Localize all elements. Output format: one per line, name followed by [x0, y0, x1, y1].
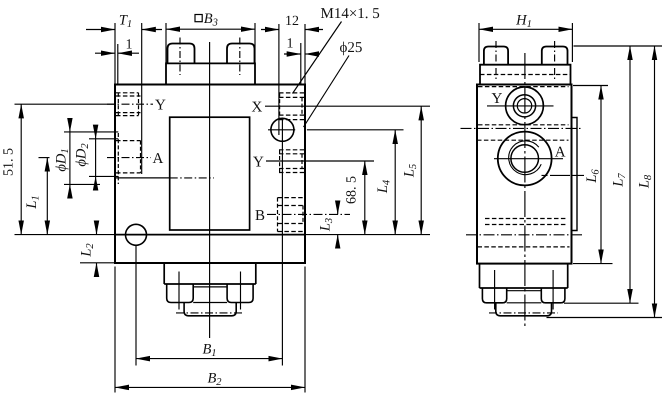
dim 68.5 line — [364, 161, 366, 235]
ext line level3 bottom to L8 — [547, 317, 663, 319]
dim L5 line — [420, 106, 422, 234]
dim L2 line with outside arrows — [96, 225, 98, 235]
hidden drill line tangent Y top — [478, 86, 569, 88]
port Y right: dashed verticals — [280, 150, 302, 173]
dim L8 line — [654, 46, 656, 318]
svg-text:X: X — [252, 100, 263, 116]
svg-text:68. 5: 68. 5 — [345, 176, 360, 204]
port B right: inner dashed lines — [278, 206, 305, 224]
spotface depth line (1) left — [117, 44, 119, 85]
svg-text:M14×1. 5: M14×1. 5 — [321, 6, 380, 22]
dim L7 line — [629, 46, 631, 303]
bottom plug centerline right — [240, 272, 242, 310]
ext line phi25 centre through circle — [268, 129, 295, 131]
port Y left: bore end dashed vertical — [138, 93, 140, 116]
H1 ext lines — [479, 23, 572, 62]
side dash-dot line upper — [461, 127, 584, 129]
phiD1 ticks — [64, 132, 118, 185]
phiD2 ticks — [89, 139, 118, 177]
hidden drill line tangent Y bottom — [478, 124, 569, 126]
M14x1.5 leader — [293, 22, 342, 94]
bottom boss level1 — [164, 264, 256, 284]
inner rectangle (mounting face recess) — [170, 117, 250, 230]
top boss base — [166, 63, 255, 84]
side bottom level3 plug — [496, 303, 552, 316]
top boss left tab — [168, 44, 195, 64]
port A side centerline — [494, 158, 563, 160]
recess centerline continuation — [170, 177, 214, 179]
L1 top tick at A centre — [39, 157, 50, 159]
spotface depth line (1) right — [300, 43, 302, 85]
bottom boss level3 plug — [184, 303, 236, 316]
recess edge line below A port — [115, 177, 170, 179]
port Y side centerline — [487, 105, 554, 107]
top tab centerline left — [179, 38, 181, 76]
dim 51.5 line — [20, 104, 22, 234]
ext line tab top to L7 L8 — [574, 45, 663, 47]
port A left: bore dashed lines — [116, 141, 141, 173]
svg-text:B: B — [255, 208, 265, 224]
port A left: bore end dashed vertical — [140, 141, 142, 173]
thread tangent ext line right of A — [542, 174, 585, 176]
port Y left: spotface dashed verticals — [117, 93, 119, 116]
side dash-dot line lower — [466, 234, 584, 236]
side bottom level2 right plug — [541, 288, 565, 303]
side hidden lines lower pair — [485, 219, 566, 225]
phi25 hole circle upper-right — [271, 118, 294, 141]
side strip on right edge — [572, 118, 578, 231]
side bottom plug centerline left — [494, 270, 496, 310]
side body — [477, 85, 572, 264]
port A left: spotface dashed vertical — [117, 133, 119, 184]
port A side: outer circle — [498, 132, 552, 186]
B1 ext line left through hole — [135, 246, 137, 366]
ext line phi25 centre to L4 — [307, 129, 404, 131]
side bottom level2 middle — [507, 291, 542, 303]
bottom plug centerline left — [178, 272, 180, 310]
svg-text:A: A — [555, 145, 566, 161]
side top right tab — [542, 47, 568, 65]
dim B1 line — [136, 358, 282, 360]
port B right: dashed verticals — [278, 198, 304, 232]
dim B3 line — [166, 28, 255, 30]
ext line y port centre to 51.5 — [15, 103, 117, 105]
svg-text:1: 1 — [126, 38, 133, 53]
side hidden line bottom — [478, 246, 570, 248]
dim L4 line — [394, 130, 396, 235]
B2 ext lines — [115, 267, 305, 393]
port B right: outer dashed lines — [278, 198, 305, 232]
port Y right: inner dashed lines — [279, 154, 304, 169]
port Y side: bore circle — [517, 99, 531, 113]
port Y left centerline — [107, 103, 153, 105]
dim L1 line — [46, 158, 48, 235]
vertical center line of front view — [209, 42, 211, 338]
side hidden line below upper — [477, 139, 569, 141]
main block body — [115, 85, 305, 264]
svg-text:Y: Y — [155, 98, 166, 114]
dim L3 line outside arrows — [337, 204, 339, 215]
port Y right centerline + 68.5 extension — [266, 160, 374, 162]
side tab centerline left — [495, 41, 497, 79]
ext line step to right — [305, 234, 430, 236]
dim 1 right outside arrows — [284, 53, 301, 55]
port X right: outer dashed lines — [279, 93, 304, 120]
ext line step to left — [15, 234, 116, 236]
side boss band — [480, 65, 571, 85]
svg-text:51. 5: 51. 5 — [1, 148, 16, 176]
svg-text:Y: Y — [492, 91, 503, 107]
bottom plug dash-dot line — [176, 312, 244, 314]
top tab centerline right — [239, 38, 241, 76]
port X centerline + L5 extension — [265, 105, 430, 107]
side bottom boss level1 — [480, 264, 568, 288]
dim B3 text with square symbol — [195, 15, 202, 22]
side tab centerline right — [554, 41, 556, 79]
side vertical center line — [524, 53, 526, 328]
dim H1 line — [479, 28, 572, 30]
svg-text:Y: Y — [253, 155, 264, 171]
bottom boss level2 right plug — [227, 284, 253, 303]
port Y left: outer bore dashed lines — [116, 93, 139, 116]
port X right: inner dashed lines — [279, 97, 304, 115]
side bottom plug dash-dot — [489, 312, 558, 314]
B1 ext line right through phi25 hole — [281, 118, 283, 366]
svg-text:A: A — [153, 151, 164, 167]
port A side: bore circle — [511, 145, 539, 173]
dim B2 line — [115, 386, 305, 388]
port B centerline + L3 extension — [267, 213, 350, 215]
svg-text:ϕ25: ϕ25 — [340, 40, 363, 56]
port depth line 12 right — [278, 24, 280, 135]
svg-text:12: 12 — [285, 14, 299, 29]
port Y right: outer dashed lines — [279, 150, 304, 173]
port Y side: outer circle — [506, 87, 544, 125]
side bottom plug centerline right — [552, 270, 554, 310]
svg-text:1: 1 — [287, 37, 294, 52]
port Y left: inner bore dashed lines — [116, 96, 141, 113]
port A left centerline — [107, 157, 151, 159]
T1 ext line left — [114, 23, 116, 85]
right edge extension line up — [304, 24, 306, 85]
dim phiD1 line with outside arrows — [69, 132, 71, 185]
ext line body top to L6 — [573, 85, 608, 87]
ext line block bottom to left — [80, 262, 115, 264]
top boss right tab — [227, 44, 255, 64]
side top left tab — [484, 47, 508, 65]
bottom boss level2 middle — [193, 287, 227, 303]
port X right: dashed verticals — [280, 93, 302, 120]
ext line body bottom to L6 — [573, 263, 613, 265]
dim T1 outside arrows — [86, 29, 115, 31]
side bottom level2 left plug — [482, 288, 506, 303]
ext line level2 bottom to L7 — [564, 302, 639, 304]
step line across block — [115, 234, 305, 236]
side boss dashed line — [480, 74, 571, 76]
port A side: thread arc — [509, 141, 542, 175]
bottom boss level2 left plug — [167, 284, 194, 303]
B3 ext lines — [166, 23, 255, 63]
port thread depth line T1 — [141, 23, 143, 174]
dim phiD2 line with outside arrows — [95, 139, 97, 177]
dim 12 outside arrows — [261, 29, 279, 31]
phi25 leader — [304, 56, 350, 128]
dim 1 left outside arrows — [95, 52, 115, 54]
dim L6 line — [600, 86, 602, 264]
mounting hole circle lower-left — [126, 224, 147, 245]
port Y side: counterbore circle — [513, 95, 535, 117]
